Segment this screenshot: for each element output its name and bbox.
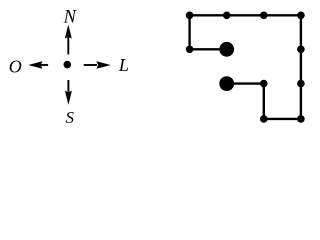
node dot row2 col4: [297, 46, 305, 54]
arrow south: [65, 80, 72, 105]
node dot row4 col4: [297, 115, 305, 123]
compass rose: center point: [64, 61, 72, 69]
arrow east: [84, 61, 111, 68]
arrow north: [65, 25, 72, 55]
node dot row1 col2: [223, 12, 231, 20]
svg-text:L: L: [118, 55, 129, 75]
node dot row4 col3: [260, 115, 268, 123]
path polyline on grid: [190, 15, 301, 119]
node dot row3 col4: [297, 80, 305, 88]
svg-text:O: O: [9, 56, 22, 76]
end point (big dot): [219, 76, 234, 91]
start point (big dot): [219, 42, 234, 57]
node dot row1 col1: [186, 12, 194, 20]
node dot row1 col4: [297, 12, 305, 20]
arrow west: [28, 61, 48, 68]
node dot row3 col3: [260, 80, 268, 88]
svg-text:N: N: [63, 7, 78, 27]
svg-text:S: S: [66, 108, 75, 127]
node dot row2 col1: [186, 46, 194, 54]
node dot row1 col3: [260, 12, 268, 20]
